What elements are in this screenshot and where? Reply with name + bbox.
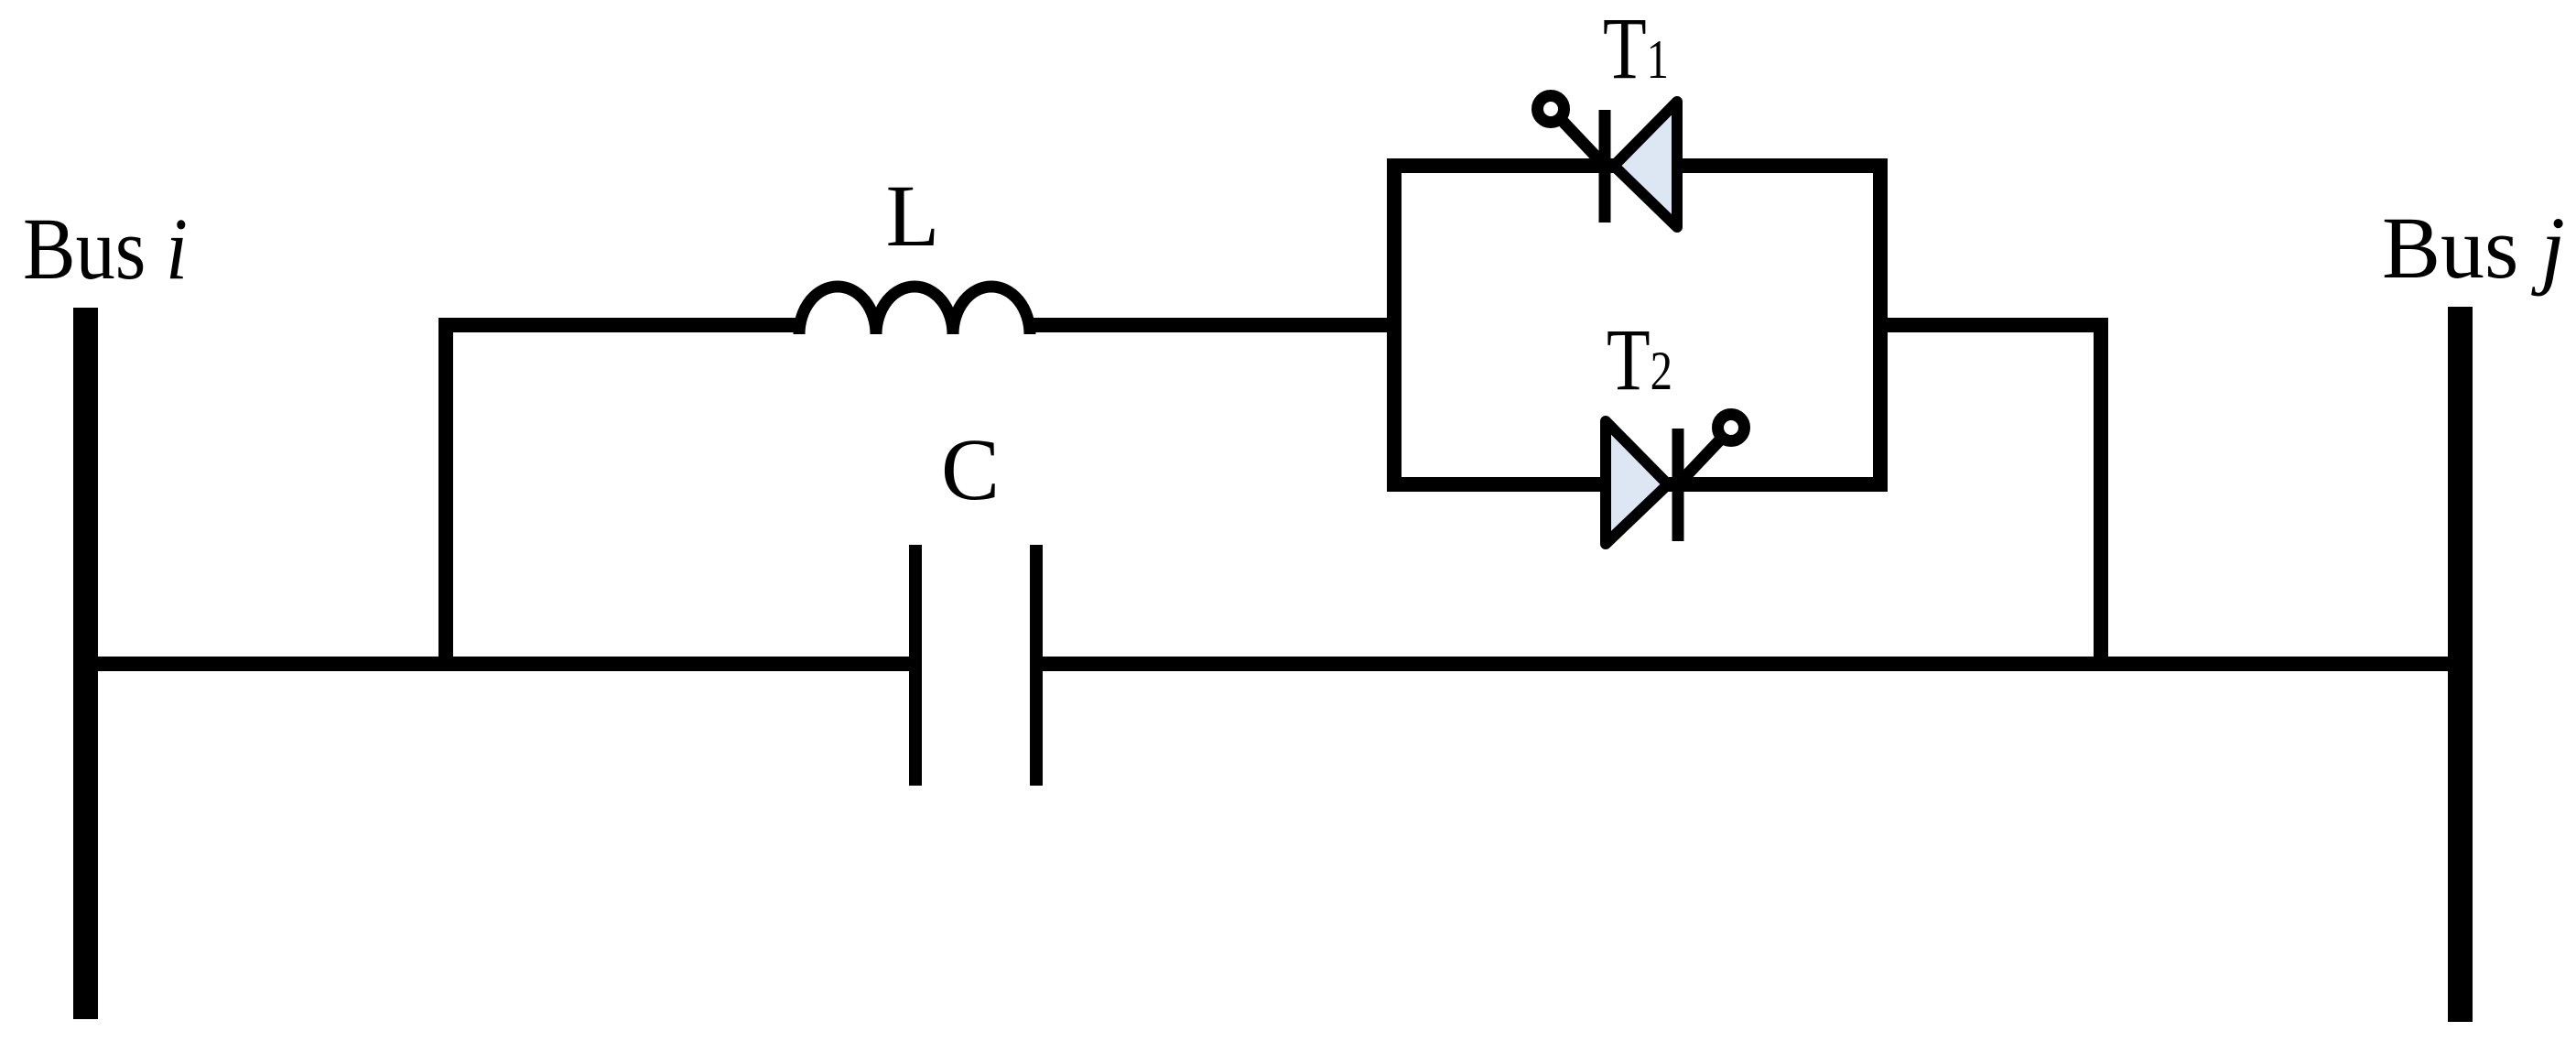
thyristor T1 gate terminal circle bbox=[1538, 96, 1564, 123]
thyristor loop box bbox=[1394, 166, 1880, 484]
wire right branch vertical bbox=[2094, 325, 2108, 664]
thyristor T1 triangle bbox=[1614, 102, 1677, 227]
wire top branch left segment bbox=[438, 318, 799, 332]
svg-text:C: C bbox=[941, 420, 1000, 518]
wire top branch middle segment: inductor to thyristor box bbox=[1030, 318, 1394, 332]
svg-text:Bus i: Bus i bbox=[23, 200, 188, 298]
inductor L coils bbox=[799, 287, 1030, 334]
thyristor T1 cathode bar bbox=[1599, 110, 1611, 223]
svg-text:L: L bbox=[886, 167, 940, 265]
wire left branch vertical bbox=[438, 325, 453, 664]
wire top branch right segment: box to right corner bbox=[1880, 318, 2108, 332]
thyristor T1 gate lead bbox=[1557, 115, 1605, 166]
thyristor T2 triangle bbox=[1606, 421, 1668, 544]
bus bar j bbox=[2448, 307, 2473, 1022]
svg-text:Bus j: Bus j bbox=[2382, 199, 2565, 297]
thyristor T2 cathode bar bbox=[1672, 429, 1684, 541]
wire bottom-left: Bus i to capacitor bbox=[85, 657, 915, 671]
wire bottom-right: capacitor to Bus j bbox=[1036, 657, 2462, 671]
bus bar i bbox=[73, 308, 98, 1019]
thyristor T2 gate terminal circle bbox=[1718, 415, 1745, 441]
capacitor C right plate bbox=[1030, 545, 1043, 786]
thyristor T2 gate lead bbox=[1678, 434, 1726, 484]
capacitor C left plate bbox=[909, 545, 922, 786]
